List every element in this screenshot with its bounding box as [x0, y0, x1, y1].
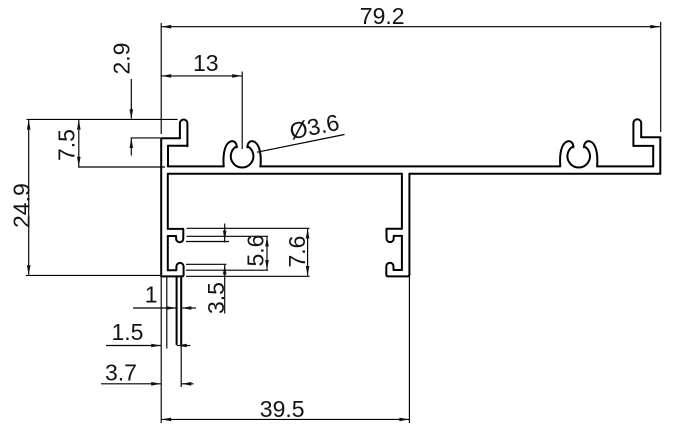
- arrow 7.6 up: [306, 229, 310, 239]
- ext row hook1 top: [187, 227, 310, 229]
- stem right face: [408, 174, 410, 275]
- ext line step top: [131, 137, 160, 139]
- stem hook lower: [386, 263, 409, 277]
- arrow 7.5 down: [77, 157, 81, 167]
- screw boss 2 circle: [567, 146, 590, 167]
- svg-text:3.5: 3.5: [203, 282, 229, 314]
- middle stem left face upper: [401, 174, 403, 229]
- arrow 13 right: [232, 74, 242, 78]
- bottom fin right wall: [180, 276, 182, 344]
- dim 3.7 line right: [182, 383, 194, 385]
- arrow 79.2 right: [650, 25, 660, 29]
- ext line 79.2 left: [160, 23, 162, 134]
- arrow 24.9 down: [27, 265, 31, 275]
- svg-text:1: 1: [145, 282, 158, 308]
- screw boss 2 left ear: [560, 141, 573, 166]
- ext row hook2 top: [186, 263, 226, 265]
- dimension texts group: [9, 3, 405, 422]
- arrow 5.6 up: [265, 237, 269, 247]
- right top step: [641, 136, 660, 138]
- left top step: [161, 137, 180, 139]
- svg-text:7.5: 7.5: [54, 129, 80, 161]
- right outer face: [659, 137, 661, 174]
- dim 2.9 line upper: [130, 79, 132, 119]
- left inner step: [168, 145, 187, 147]
- screw boss 1 circle: [231, 146, 254, 167]
- bottom fin left wall: [176, 276, 178, 344]
- arrow 7.6 down: [306, 266, 310, 276]
- screw boss 2 right ear: [584, 141, 597, 166]
- dim 1 line right: [182, 307, 196, 309]
- left wall hook lower: [161, 263, 183, 277]
- left inner face upper: [167, 146, 169, 167]
- dim 7.5 line: [78, 120, 80, 167]
- arrow 1.5 left: [177, 344, 187, 348]
- ext line finger top: [27, 118, 178, 120]
- ext line wall top left: [78, 166, 165, 168]
- main wall top left segment: [168, 165, 224, 167]
- dim 7.6 line: [307, 229, 309, 276]
- ext line 79.2 right: [660, 22, 662, 132]
- svg-text:1.5: 1.5: [112, 319, 144, 345]
- main wall top right segment: [598, 165, 654, 167]
- svg-text:7.6: 7.6: [284, 236, 310, 268]
- svg-text:5.6: 5.6: [242, 235, 268, 267]
- dim 1.5 line left: [106, 345, 161, 347]
- arrow 3.5 up: [223, 265, 227, 275]
- arrow 7.5 up: [77, 120, 81, 130]
- svg-text:13: 13: [193, 50, 219, 76]
- ext line 13 right: [241, 72, 243, 150]
- svg-text:3.7: 3.7: [105, 360, 137, 386]
- arrow 1.5 right: [151, 344, 161, 348]
- ext row profile bottom right: [186, 275, 310, 277]
- ext row hook1 bottom: [186, 241, 229, 243]
- arrow 24.9 up: [27, 120, 31, 130]
- arrow 1 right: [166, 306, 176, 310]
- arrow 13 left: [161, 74, 171, 78]
- profile outline group: [161, 119, 660, 344]
- arrow 2.9 down: [130, 109, 134, 119]
- svg-text:39.5: 39.5: [260, 396, 305, 422]
- svg-text:24.9: 24.9: [9, 183, 35, 228]
- main wall bottom right segment: [409, 173, 660, 175]
- right inner face: [652, 146, 654, 167]
- ext line stem right down: [408, 276, 410, 423]
- ext line fin right down: [180, 344, 182, 387]
- dim 24.9 line: [28, 120, 30, 275]
- main wall bottom left segment: [168, 173, 402, 175]
- ext line profile bottom left: [26, 274, 160, 276]
- dim 3.5 line upper: [224, 224, 226, 243]
- svg-text:2.9: 2.9: [109, 43, 135, 75]
- arrow 3.7 right: [151, 382, 161, 386]
- arrow 79.2 left: [161, 25, 171, 29]
- leader line diameter: [257, 135, 345, 153]
- right inner step: [633, 145, 653, 147]
- arrow 39.5 left: [161, 418, 171, 422]
- dim 1 line left: [133, 307, 176, 309]
- arrow 2.9 up: [130, 138, 134, 148]
- dim 5.6 line: [266, 237, 268, 270]
- arrow 1 left: [181, 306, 191, 310]
- stem left face mid: [401, 236, 403, 270]
- arrow 5.6 down: [265, 260, 269, 270]
- ext row hook1 inner: [187, 235, 269, 237]
- left finger hook: [180, 120, 188, 147]
- left wall hook upper: [168, 229, 184, 242]
- screw boss 1 left ear: [223, 141, 236, 166]
- right finger hook: [633, 119, 641, 146]
- dim 2.9 line lower: [130, 138, 132, 155]
- ext line outer face down: [160, 276, 162, 423]
- left outer face wall: [160, 138, 162, 276]
- stem hook upper: [387, 229, 402, 242]
- ext row hook2 inner: [186, 269, 268, 271]
- arrow 3.5 down: [223, 231, 227, 241]
- dim 3.5 line lower: [224, 265, 226, 314]
- dim 39.5 line: [161, 418, 409, 420]
- ext line inner face down: [166, 276, 168, 348]
- arrow 39.5 right: [399, 418, 409, 422]
- arrow 3.7 left: [181, 382, 191, 386]
- dim 3.7 line left: [101, 383, 161, 385]
- svg-text:79.2: 79.2: [360, 3, 405, 29]
- screw boss 1 right ear: [247, 141, 260, 166]
- main wall top middle segment: [260, 165, 560, 167]
- left inner face below wall: [167, 174, 169, 229]
- dim 79.2 line: [161, 26, 660, 28]
- dim 1.5 line right: [177, 345, 190, 347]
- left inner face mid: [167, 236, 169, 270]
- dim 13 line: [161, 75, 242, 77]
